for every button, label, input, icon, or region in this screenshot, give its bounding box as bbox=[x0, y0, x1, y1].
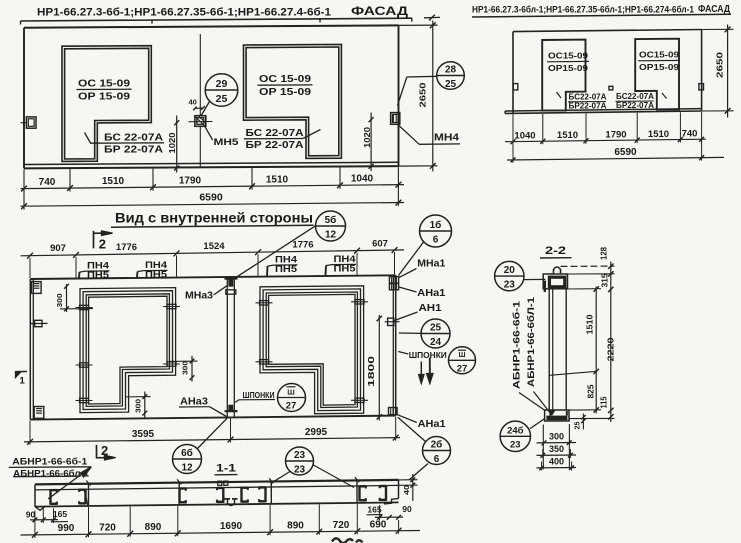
svg-text:1510: 1510 bbox=[648, 129, 669, 140]
svg-text:6: 6 bbox=[433, 235, 439, 246]
svg-text:5б: 5б bbox=[325, 214, 337, 226]
svg-text:24: 24 bbox=[430, 337, 442, 348]
svg-text:300: 300 bbox=[55, 294, 64, 308]
svg-text:12: 12 bbox=[325, 230, 337, 241]
svg-text:2220: 2220 bbox=[607, 337, 616, 362]
svg-text:ПН5: ПН5 bbox=[275, 264, 297, 274]
svg-text:1510: 1510 bbox=[266, 175, 289, 186]
svg-text:2: 2 bbox=[101, 443, 108, 458]
svg-text:АБНР1-66-6бЛ-1: АБНР1-66-6бЛ-1 bbox=[526, 297, 536, 387]
svg-text:2: 2 bbox=[99, 236, 106, 251]
svg-text:90: 90 bbox=[402, 504, 412, 514]
svg-text:1: 1 bbox=[20, 376, 26, 387]
svg-text:990: 990 bbox=[58, 523, 75, 534]
svg-text:1524: 1524 bbox=[203, 241, 225, 252]
svg-text:ПН4: ПН4 bbox=[145, 260, 167, 270]
svg-text:907: 907 bbox=[50, 243, 66, 254]
svg-text:23: 23 bbox=[504, 280, 516, 291]
svg-text:23: 23 bbox=[294, 465, 306, 476]
svg-text:740: 740 bbox=[682, 128, 698, 139]
svg-text:720: 720 bbox=[333, 520, 350, 531]
svg-text:300: 300 bbox=[549, 432, 564, 442]
svg-text:2995: 2995 bbox=[305, 427, 328, 438]
svg-text:25: 25 bbox=[430, 323, 442, 334]
svg-text:1020: 1020 bbox=[167, 132, 177, 153]
svg-text:ФАСАД: ФАСАД bbox=[351, 6, 408, 18]
svg-text:БР 22-07А: БР 22-07А bbox=[104, 145, 163, 156]
svg-text:АН1: АН1 bbox=[419, 302, 442, 314]
svg-text:350: 350 bbox=[549, 444, 564, 454]
svg-text:ФАСАД: ФАСАД bbox=[698, 4, 730, 15]
svg-text:690: 690 bbox=[370, 520, 387, 531]
svg-text:165: 165 bbox=[53, 509, 67, 519]
svg-text:Ш: Ш bbox=[287, 388, 295, 397]
svg-text:1790: 1790 bbox=[605, 129, 626, 140]
svg-text:720: 720 bbox=[99, 523, 116, 534]
svg-text:ОС15-09: ОС15-09 bbox=[548, 51, 588, 61]
svg-text:3595: 3595 bbox=[132, 429, 155, 440]
svg-text:23: 23 bbox=[294, 450, 306, 461]
svg-text:ОР15-09: ОР15-09 bbox=[548, 63, 588, 73]
svg-text:БС 22-07А: БС 22-07А bbox=[246, 128, 304, 139]
svg-text:1776: 1776 bbox=[292, 240, 313, 251]
svg-text:БР22-07А: БР22-07А bbox=[569, 101, 607, 111]
svg-text:ОР 15-09: ОР 15-09 bbox=[259, 86, 311, 98]
svg-text:ПН4: ПН4 bbox=[334, 254, 356, 264]
svg-text:27: 27 bbox=[457, 364, 468, 375]
svg-text:740: 740 bbox=[39, 177, 56, 188]
svg-text:6590: 6590 bbox=[614, 147, 637, 158]
svg-text:МНа3: МНа3 bbox=[185, 290, 213, 302]
svg-text:НР1-66.27.3-6бл-1;НР1-66.27.35: НР1-66.27.3-6бл-1;НР1-66.27.35-6бл-1;НР1… bbox=[472, 5, 694, 15]
svg-text:90: 90 bbox=[26, 510, 36, 520]
svg-text:165: 165 bbox=[367, 505, 381, 515]
svg-text:НР1-66.27.3-6б-1;НР1-66.27.35-: НР1-66.27.3-6б-1;НР1-66.27.35-6б-1;НР1-6… bbox=[37, 7, 331, 19]
svg-text:6б: 6б bbox=[181, 447, 193, 459]
svg-text:ОС 15-09: ОС 15-09 bbox=[78, 78, 130, 90]
svg-text:40: 40 bbox=[402, 485, 411, 495]
svg-text:400: 400 bbox=[549, 457, 564, 467]
svg-text:115: 115 bbox=[600, 396, 609, 409]
svg-text:1б: 1б bbox=[430, 219, 442, 231]
svg-text:ОС 15-09: ОС 15-09 bbox=[259, 73, 311, 85]
svg-text:ШПОНКИ: ШПОНКИ bbox=[409, 350, 447, 360]
svg-text:1040: 1040 bbox=[514, 131, 535, 142]
svg-text:1510: 1510 bbox=[586, 314, 595, 335]
svg-text:2б: 2б bbox=[431, 439, 443, 451]
svg-text:28: 28 bbox=[445, 65, 457, 76]
svg-text:1040: 1040 bbox=[351, 174, 374, 185]
svg-text:24б: 24б bbox=[507, 425, 524, 436]
svg-text:ПН4: ПН4 bbox=[87, 261, 109, 271]
svg-text:ПН4: ПН4 bbox=[275, 255, 297, 265]
svg-text:БС 22-07А: БС 22-07А bbox=[104, 133, 163, 144]
svg-text:23: 23 bbox=[510, 439, 521, 450]
svg-text:1776: 1776 bbox=[116, 242, 137, 253]
svg-text:27: 27 bbox=[286, 401, 297, 412]
svg-text:2650: 2650 bbox=[715, 52, 725, 78]
svg-text:АБНР1-66-6б-1: АБНР1-66-6б-1 bbox=[12, 457, 88, 468]
svg-text:ПН5: ПН5 bbox=[87, 270, 109, 280]
svg-text:25: 25 bbox=[573, 422, 582, 430]
svg-text:607: 607 bbox=[372, 238, 388, 249]
svg-text:25: 25 bbox=[445, 79, 457, 90]
svg-text:АНа1: АНа1 bbox=[417, 287, 445, 299]
svg-text:890: 890 bbox=[287, 520, 304, 531]
svg-text:6590: 6590 bbox=[199, 191, 223, 203]
svg-text:1800: 1800 bbox=[366, 356, 376, 387]
svg-text:МН5: МН5 bbox=[214, 137, 240, 148]
svg-text:25: 25 bbox=[216, 93, 228, 105]
svg-text:40: 40 bbox=[189, 98, 197, 107]
svg-text:1510: 1510 bbox=[102, 176, 125, 187]
svg-text:128: 128 bbox=[600, 246, 609, 260]
svg-text:1690: 1690 bbox=[220, 521, 243, 532]
svg-text:20: 20 bbox=[504, 265, 516, 276]
svg-text:ШПОНКИ: ШПОНКИ bbox=[243, 391, 275, 400]
svg-text:1020: 1020 bbox=[362, 127, 372, 148]
svg-text:6: 6 bbox=[434, 454, 440, 465]
svg-text:2-2: 2-2 bbox=[545, 245, 566, 257]
svg-text:Ш: Ш bbox=[458, 352, 465, 359]
svg-text:МНа1: МНа1 bbox=[417, 258, 445, 270]
svg-text:АБНР1-66-6бл-1: АБНР1-66-6бл-1 bbox=[13, 468, 90, 479]
svg-text:ОР15-09: ОР15-09 bbox=[639, 62, 679, 72]
svg-text:ПН5: ПН5 bbox=[334, 264, 356, 274]
svg-text:300: 300 bbox=[134, 399, 143, 413]
svg-text:890: 890 bbox=[145, 522, 162, 533]
svg-text:2650: 2650 bbox=[418, 82, 428, 107]
svg-text:МН4: МН4 bbox=[434, 133, 460, 144]
svg-text:ПН5: ПН5 bbox=[145, 270, 167, 280]
svg-text:БР22-07А: БР22-07А bbox=[616, 100, 654, 110]
svg-text:БР 22-07А: БР 22-07А bbox=[246, 140, 304, 151]
svg-text:1790: 1790 bbox=[179, 175, 202, 186]
svg-text:ОС15-09: ОС15-09 bbox=[639, 50, 679, 60]
svg-text:ОР 15-09: ОР 15-09 bbox=[78, 91, 130, 103]
svg-text:300: 300 bbox=[181, 361, 190, 375]
svg-text:315: 315 bbox=[601, 273, 610, 288]
svg-text:29: 29 bbox=[216, 78, 228, 90]
svg-text:825: 825 bbox=[587, 384, 596, 399]
svg-text:АНа1: АНа1 bbox=[418, 418, 446, 430]
svg-text:АБНР1-66-6б-1: АБНР1-66-6б-1 bbox=[512, 301, 522, 389]
svg-text:АНа3: АНа3 bbox=[180, 396, 208, 408]
svg-text:1-1: 1-1 bbox=[216, 463, 236, 475]
svg-text:Вид с внутренней стороны: Вид с внутренней стороны bbox=[115, 210, 313, 226]
svg-text:12: 12 bbox=[181, 463, 193, 474]
svg-text:1510: 1510 bbox=[557, 130, 578, 141]
